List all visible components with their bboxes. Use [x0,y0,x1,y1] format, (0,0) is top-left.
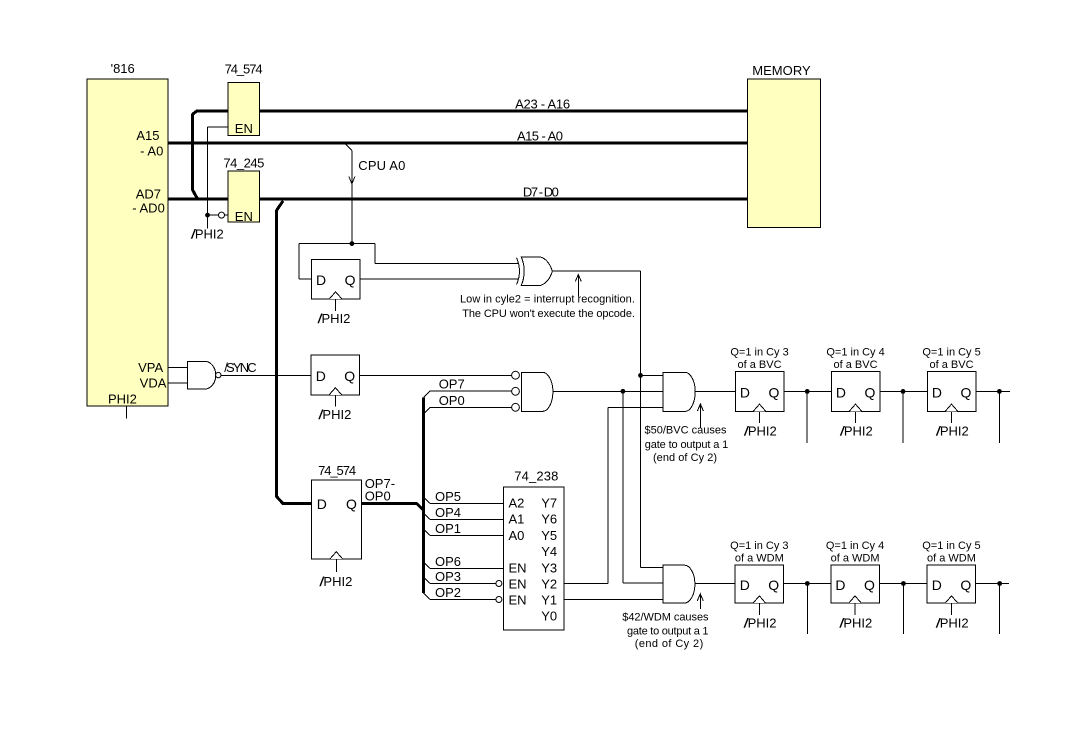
svg-text:D: D [316,272,326,288]
svg-text:PHI2: PHI2 [108,391,137,406]
svg-text:(end of Cy 2): (end of Cy 2) [635,638,704,650]
bus D7-D0 [168,185,748,200]
note: interrupt recognition + arrow [460,275,635,320]
svg-text:- A0: - A0 [140,144,163,159]
junction dot [805,581,810,586]
AND gate WDM [663,565,695,603]
wire /PHI2 to 74_574 EN and 74_245 EN [190,127,228,242]
junction dot [901,389,906,394]
transceiver 74_245 [223,155,264,223]
svg-text:Y0: Y0 [541,608,557,623]
svg-text:gate to output a 1: gate to output a 1 [645,439,729,451]
wire DFF1 Q to XOR [360,278,519,280]
svg-text:OP2: OP2 [435,585,461,600]
junction dot [997,389,1002,394]
svg-text:EN: EN [509,593,527,608]
svg-text:/PHI2: /PHI2 [935,615,969,630]
bus A15-A0 [168,128,748,143]
wire OP0 tap [424,393,512,414]
note: $42/WDM + arrow [622,594,709,650]
wire OP6 tap [424,554,504,569]
svg-text:of a BVC: of a BVC [738,359,782,371]
bubbles EN2 EN3 [496,581,502,587]
svg-text:/PHI2: /PHI2 [839,424,873,439]
svg-text:Low in cyle2 = interrupt recog: Low in cyle2 = interrupt recognition. [460,293,635,305]
flip-flop WDM Q=1 in Cy 3 [730,540,788,630]
svg-text:74_574: 74_574 [225,62,263,77]
svg-text:A2: A2 [509,496,525,511]
svg-text:Q: Q [864,577,875,593]
svg-text:of a BVC: of a BVC [930,359,974,371]
svg-text:Q=1 in Cy 3: Q=1 in Cy 3 [730,346,788,358]
junction dot [901,581,906,586]
latch 74_574 (opcode) [312,463,362,589]
svg-text:D: D [316,368,326,384]
svg-text:OP0: OP0 [439,393,465,408]
flip-flop BVC Q=1 in Cy 4 [826,346,884,438]
svg-text:/PHI2: /PHI2 [839,615,873,630]
svg-text:gate to output a 1: gate to output a 1 [627,625,709,637]
svg-text:Q=1 in Cy 4: Q=1 in Cy 4 [826,540,884,552]
svg-text:D: D [740,577,750,593]
svg-text:/PHI2: /PHI2 [319,574,353,589]
wire OP2 tap [424,585,496,600]
wire XOR output down to AND gates [552,271,663,567]
svg-text:Q: Q [346,496,357,512]
wire opcode: D7-D0 bus down to 74_574 opcode latch D input [277,201,312,503]
flip-flop U3 (A0 delay) [311,259,360,326]
bus A23-A16 [196,96,748,111]
wire BVC gate output to DFF chain [695,390,735,392]
svg-text:OP3: OP3 [435,569,461,584]
wire CPU A0 from A15-A0 bus to DFF and XOR [299,145,519,280]
wire AND1 output to BVC and WDM gates [553,389,663,583]
svg-text:D: D [836,384,846,400]
junction dot XOR/BVC [638,373,643,378]
svg-text:EN: EN [509,560,527,575]
svg-text:- AD0: - AD0 [132,201,165,216]
svg-text:Y1: Y1 [541,593,557,608]
svg-text:OP5: OP5 [435,489,461,504]
svg-text:OP4: OP4 [435,505,461,520]
svg-text:A23 - A16: A23 - A16 [515,96,570,111]
svg-text:/PHI2: /PHI2 [743,615,777,630]
svg-text:D: D [932,577,942,593]
wire DFF2 Q to AND1 [360,374,512,376]
svg-text:Q: Q [961,384,972,400]
wire OP1 tap [424,521,504,536]
svg-text:AD7: AD7 [136,186,161,201]
svg-text:of a WDM: of a WDM [831,553,880,565]
svg-text:Q: Q [865,384,876,400]
junction dot [805,389,810,394]
svg-text:VPA: VPA [138,360,163,375]
svg-text:/PHI2: /PHI2 [935,424,969,439]
junction dot [997,581,1002,586]
svg-text:'816: '816 [111,61,135,76]
svg-text:Y5: Y5 [541,528,557,543]
svg-text:/PHI2: /PHI2 [318,407,352,422]
svg-text:D: D [835,577,845,593]
svg-text:Y2: Y2 [541,576,557,591]
svg-text:Q: Q [768,577,779,593]
svg-text:Y6: Y6 [541,512,557,527]
svg-text:OP1: OP1 [435,521,461,536]
label OP7-OP0 [365,476,395,503]
XOR gate (A0 compare) [517,257,553,285]
NAND gate /SYNC [187,361,221,389]
svg-text:$50/BVC causes: $50/BVC causes [644,424,727,436]
svg-text:A1: A1 [509,512,525,527]
CPU '816 [87,61,168,419]
svg-text:Q: Q [344,368,355,384]
svg-text:Y7: Y7 [541,496,557,511]
svg-text:The CPU won't execute the opco: The CPU won't execute the opcode. [462,308,635,320]
svg-text:OP6: OP6 [435,554,461,569]
svg-text:EN: EN [509,576,527,591]
wire VPA/VDA to NAND [168,367,188,369]
arrowhead down [349,177,355,185]
wire /SYNC [221,360,311,376]
svg-text:/PHI2: /PHI2 [190,227,224,242]
wire OP7-OP0 bus from latch Q [361,398,423,594]
svg-text:MEMORY: MEMORY [752,63,811,78]
svg-text:74_238: 74_238 [514,468,558,483]
svg-text:Y3: Y3 [541,560,557,575]
svg-text:Q=1 in Cy 3: Q=1 in Cy 3 [730,540,788,552]
svg-text:of a WDM: of a WDM [927,553,976,565]
note: $50/BVC + arrow [644,404,728,464]
svg-text:Q=1 in Cy 5: Q=1 in Cy 5 [922,346,980,358]
wire OP7 tap [424,377,512,398]
wire bank address: D7-D0 bus up to A23-A16 latch line [192,111,197,199]
flip-flop BVC Q=1 in Cy 5 [922,346,980,438]
svg-text:$42/WDM causes: $42/WDM causes [622,611,709,623]
svg-text:Y4: Y4 [541,544,557,559]
latch 74_574 (bank address) [225,62,263,137]
wire Y1 to WDM gate [564,599,663,601]
svg-text:Q: Q [345,272,356,288]
svg-text:A0: A0 [509,528,525,543]
svg-text:/PHI2: /PHI2 [317,311,351,326]
svg-text:Q=1 in Cy 4: Q=1 in Cy 4 [826,346,884,358]
svg-text:74_245: 74_245 [223,155,264,170]
svg-text:OP7: OP7 [439,377,465,392]
junction dot /PHI2 [205,213,210,218]
svg-text:Q: Q [960,577,971,593]
svg-text:VDA: VDA [140,375,167,390]
svg-text:D: D [317,496,327,512]
bubble 74_245 EN [219,212,225,218]
svg-text:A15: A15 [136,128,159,143]
junction dot CPU A0 [350,241,355,246]
svg-text:Q=1 in Cy 5: Q=1 in Cy 5 [922,540,980,552]
AND gate U5 with inverted inputs [512,371,553,411]
decoder 74_238 [496,468,564,630]
svg-text:/PHI2: /PHI2 [743,424,777,439]
flip-flop WDM Q=1 in Cy 5 [922,540,980,630]
svg-text:CPU A0: CPU A0 [358,158,405,173]
svg-text:D7 - D0: D7 - D0 [523,185,559,200]
svg-text:D: D [932,384,942,400]
svg-text:of a BVC: of a BVC [834,359,878,371]
flip-flop BVC Q=1 in Cy 3 [730,346,788,438]
wire WDM gate output to DFF chain [695,583,736,585]
svg-text:of a WDM: of a WDM [735,553,784,565]
svg-text:D: D [740,384,750,400]
wire Y2 to BVC gate [564,407,663,583]
wire OP5 tap [424,489,504,504]
svg-text:(end of Cy 2): (end of Cy 2) [653,452,717,464]
flip-flop WDM Q=1 in Cy 4 [826,540,884,630]
flip-flop U4 (SYNC delay) [311,355,360,422]
wire OP3 tap [424,569,496,584]
svg-text:74_574: 74_574 [318,463,356,478]
svg-text:Q: Q [769,384,780,400]
svg-text:A15 - A0: A15 - A0 [517,128,563,143]
svg-text:EN: EN [235,209,253,224]
svg-text:OP0: OP0 [365,488,391,503]
svg-text:/SYNC: /SYNC [224,360,257,375]
svg-text:EN: EN [235,121,253,136]
MEMORY block [748,63,821,228]
wire OP4 tap [424,505,504,520]
AND gate BVC [663,372,695,411]
